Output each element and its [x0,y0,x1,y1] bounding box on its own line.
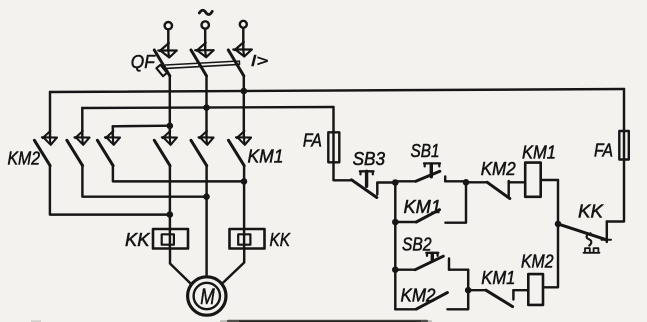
terminal circle L2 [202,21,209,28]
wire pole A vertical [169,76,171,137]
contact KM1 NC post [512,290,514,299]
svg-text:KK: KK [270,229,292,250]
pushbutton SB3 actuator [360,171,374,174]
wire right drop from KK [607,89,624,222]
scan smudge bottom [220,320,432,322]
node rail/SB2 [392,266,399,273]
wire KM2-3 output [113,166,244,182]
thermal element KK2 box [230,229,265,249]
node rail/SB1 [392,179,399,186]
contact KM1 aux blade [416,210,439,222]
wire phase B down to motor [205,166,207,277]
wire SB2 in [395,268,415,270]
wire phase C down to KK2 [243,166,245,249]
pushbutton SB1 actuator [424,163,440,166]
pushbutton SB1 terminal tick [444,177,446,182]
terminal circle L3 [240,21,247,28]
svg-text:SB1: SB1 [411,140,440,161]
svg-text:KM1: KM1 [248,146,284,167]
contactor KM2 contact 3 blade [97,140,113,165]
contactor KM2 contact 1 arrow [42,131,57,145]
breaker QF pole 1 blade [154,50,170,76]
node SB1/KM2nc [463,179,470,186]
svg-text:KM1: KM1 [404,196,442,217]
AC tilde mark [199,10,212,14]
svg-text:QF: QF [131,51,157,72]
pushbutton SB2 terminal [448,259,450,270]
svg-text:SB2: SB2 [402,234,432,255]
wire coil KM1 out / right rail [541,180,558,287]
contactor KM1 contact 1 arrow [162,131,177,145]
contact KK terminal [606,222,608,243]
wire L3 drop [242,28,244,50]
coil KM1 body [525,163,541,197]
wire FA left column [334,107,352,180]
pushbutton SB3 blade [352,180,377,198]
wire L2 drop [204,29,206,51]
node bus1/poleC [241,88,248,95]
svg-text:KK: KK [578,201,605,222]
thermal element KK1 box [153,229,188,249]
wire KM1 aux in [395,221,416,223]
arrow L2 [195,43,213,58]
svg-text:KM2: KM2 [481,158,517,179]
pushbutton SB2 blade [415,256,443,270]
wire bus 3 (phase A) [113,124,170,127]
svg-text:KM1: KM1 [522,142,556,163]
terminal circle L1 [165,22,172,29]
breaker QF pole 2 blade [191,50,207,76]
contactor KM2 contact 1 blade [34,140,50,165]
contactor KM1 contact 2 arrow [199,131,214,145]
svg-text:FA: FA [303,130,322,151]
wire KK1 to motor [170,249,190,284]
svg-text:I>: I> [251,53,268,70]
pushbutton SB1 blade [416,171,440,181]
contactor KM1 contact 3 arrow [236,131,251,145]
wire bus 2 (phase B) [82,107,333,108]
node bus3/poleA [167,123,174,130]
motor M inner circle [194,283,220,309]
wire bus1 left drop [49,92,51,138]
node KM2-1/phaseA [167,211,174,218]
contactor KM2 contact 2 arrow [74,131,89,145]
arrow L1 [158,43,176,58]
fuse FA right body [619,131,629,160]
scan smudge bottom mid [227,320,428,322]
scan smudge bottom core [239,321,421,322]
wire SB3 out [377,181,395,183]
contactor KM2 contact 2 blade [67,140,83,165]
svg-text:FA: FA [594,140,613,161]
wire KM2 aux right loop [447,270,468,310]
svg-text:M: M [200,284,215,309]
contactor KM1 contact 2 blade [191,140,207,165]
coil KM2 body [528,274,543,305]
wire control left rail [394,183,396,310]
wire SB1 out [445,180,466,182]
breaker QF pole 3 blade [228,50,244,76]
arrow L3 [233,42,251,57]
fuse FA left body [328,132,339,162]
node rail/KK [555,221,562,228]
wire KK2 to motor [223,249,244,283]
wire KM2 aux bottom [395,308,416,310]
wire SB1 in [395,180,416,182]
thermal release hook [587,233,592,245]
contact KM1 NC blade [486,290,513,306]
wire pole B vertical [205,76,207,137]
contact KM2 NC post [507,181,509,196]
svg-text:KK: KK [125,229,151,250]
scan smudge small [31,320,41,322]
wire KM2-2 output [82,166,206,197]
node rail/KM1aux [392,219,399,226]
svg-text:KM2: KM2 [521,251,554,272]
wire bus3 left drop [112,126,114,137]
node bus2/poleB [203,104,210,111]
svg-text:KM1: KM1 [481,267,515,288]
svg-text:SB3: SB3 [353,148,386,169]
contact KM2 NC blade [487,182,510,198]
thermal element KK1 inner [162,234,174,244]
svg-text:KM2: KM2 [401,285,437,306]
pushbutton SB3 terminal tick [376,183,378,195]
wire bus2 left drop [81,108,83,138]
wire KM2-1 output [50,166,170,215]
breaker QF handle [156,65,167,76]
node SB2/KM1nc [465,287,472,294]
breaker QF linkage bar [166,61,240,68]
contact KM2 aux blade [417,293,448,309]
wire KM1 aux out loop [445,182,466,222]
contactor KM1 contact 1 blade [154,140,170,165]
contactor KM1 contact 3 blade [229,140,245,165]
wire phase A down to KK1 [169,166,171,249]
wire to KM1 NC [468,289,486,291]
contact KK tick [602,239,612,241]
wire to KM2 NC [466,181,487,183]
thermal release teeth [584,248,600,253]
contactor KM2 contact 3 arrow [105,131,120,145]
wire L1 drop [167,30,169,52]
contact KK blade [558,224,607,240]
thermal element KK2 inner [238,234,250,244]
svg-text:KM2: KM2 [8,148,41,169]
node KM2-3/phaseC [241,178,248,185]
wire KM2 NC out [509,181,526,183]
wire pole C vertical [243,76,245,137]
motor M outer circle [188,277,226,315]
pushbutton SB2 actuator [426,253,438,256]
wire bus 1 (phase C) [50,89,624,92]
wire SB2 out [449,268,468,270]
node KM2-2/phaseB [203,193,210,200]
wire KM1 NC out [513,289,528,291]
